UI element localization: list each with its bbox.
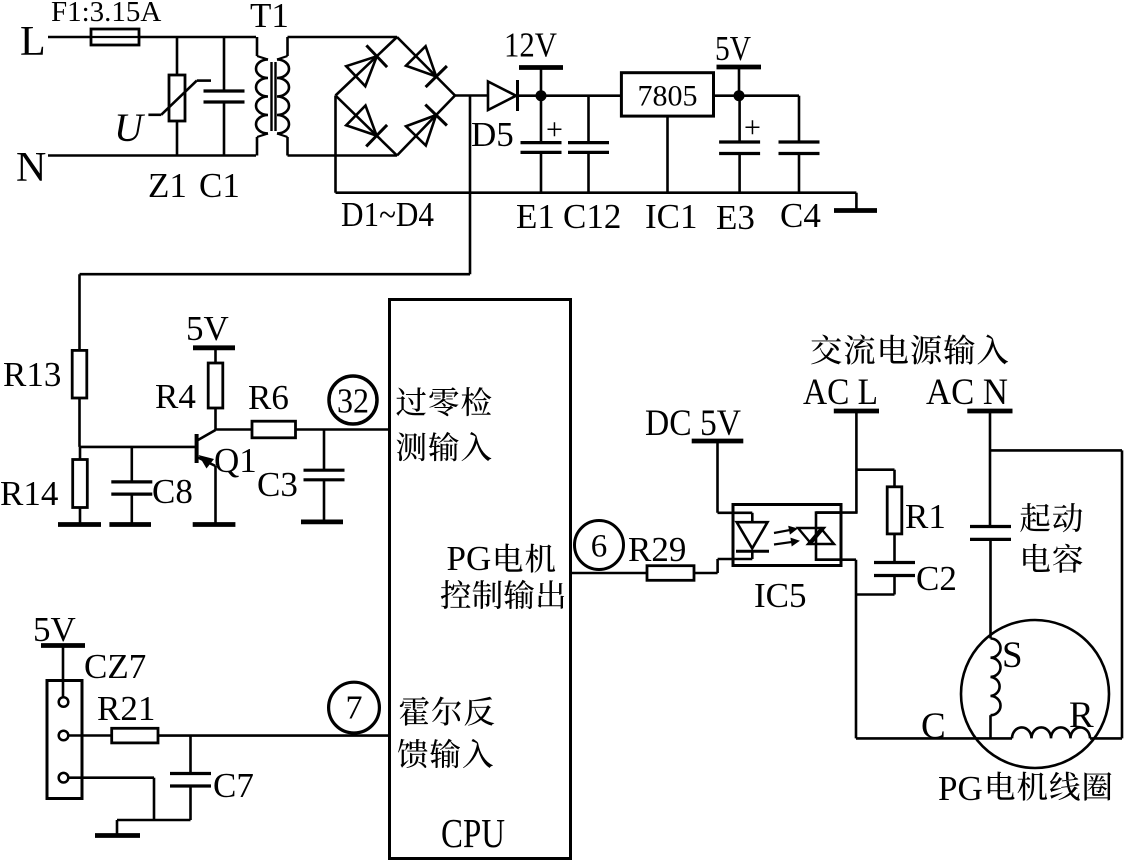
svg-text:5V: 5V	[186, 309, 229, 348]
svg-text:CPU: CPU	[441, 810, 505, 856]
svg-text:C12: C12	[563, 197, 621, 236]
svg-text:R1: R1	[905, 497, 946, 536]
svg-text:IC1: IC1	[645, 197, 698, 236]
svg-text:5V: 5V	[715, 29, 751, 68]
svg-text:D5: D5	[471, 115, 514, 154]
svg-text:PG: PG	[447, 539, 492, 578]
svg-text:R21: R21	[97, 689, 155, 728]
svg-text:D1~D4: D1~D4	[341, 195, 434, 234]
svg-text:C7: C7	[213, 766, 254, 805]
svg-text:C8: C8	[152, 472, 193, 511]
svg-text:R6: R6	[248, 378, 289, 417]
svg-text:R13: R13	[3, 355, 61, 394]
svg-text:Z1: Z1	[148, 166, 187, 205]
svg-text:T1: T1	[250, 0, 289, 35]
svg-text:AC N: AC N	[926, 372, 1008, 413]
svg-text:+: +	[744, 111, 761, 144]
svg-text:Q1: Q1	[214, 441, 257, 480]
svg-text:R: R	[1069, 695, 1094, 736]
svg-text:CZ7: CZ7	[84, 647, 146, 686]
svg-text:7805: 7805	[638, 80, 698, 113]
svg-text:C2: C2	[916, 559, 957, 598]
svg-text:IC5: IC5	[754, 576, 807, 615]
svg-text:U: U	[114, 105, 146, 150]
svg-text:12V: 12V	[504, 26, 557, 65]
svg-text:PG: PG	[938, 769, 983, 808]
svg-text:DC 5V: DC 5V	[645, 403, 741, 444]
svg-text:+: +	[546, 113, 563, 146]
svg-text:E1: E1	[516, 197, 555, 236]
svg-text:N: N	[16, 145, 46, 191]
svg-text:32: 32	[337, 382, 369, 421]
svg-text:E3: E3	[716, 198, 755, 237]
svg-text:L: L	[20, 19, 46, 65]
svg-text:6: 6	[591, 529, 608, 565]
svg-text:C1: C1	[199, 166, 240, 205]
svg-text:F1:3.15A: F1:3.15A	[51, 0, 161, 28]
svg-text:7: 7	[346, 690, 363, 727]
svg-text:R29: R29	[628, 530, 686, 569]
svg-text:C4: C4	[780, 196, 821, 235]
svg-text:C3: C3	[257, 465, 298, 504]
svg-text:R14: R14	[0, 474, 58, 513]
svg-text:C: C	[921, 706, 946, 747]
svg-text:S: S	[1002, 635, 1023, 676]
svg-text:AC L: AC L	[803, 372, 878, 413]
svg-text:R4: R4	[155, 377, 196, 416]
